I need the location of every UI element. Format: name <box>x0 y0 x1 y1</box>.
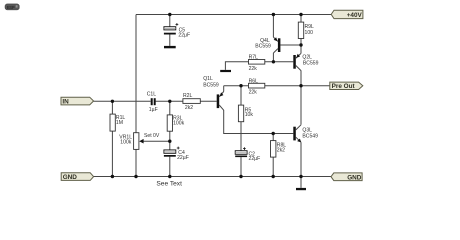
node IN tag <box>61 97 94 105</box>
wire Q4L collector lead <box>272 53 274 62</box>
junction input-R1L <box>111 100 114 103</box>
svg-text:R7L: R7L <box>249 55 259 61</box>
wire R7L right lead to Q2L base <box>265 61 294 63</box>
wire C1L to R2L and R3L node <box>156 100 183 102</box>
junction feedback-R8L-Q3L base <box>272 132 275 135</box>
svg-text:Set 0V: Set 0V <box>144 133 160 139</box>
junction output-Q2L-Q3L collectors <box>299 84 302 87</box>
svg-text:Q1L: Q1L <box>203 76 213 82</box>
wire Q4L emitter lead from rail <box>272 15 274 38</box>
junction gnd-C4 <box>168 175 171 178</box>
wire C4 leads <box>169 141 171 176</box>
junction gnd-R8L <box>272 175 275 178</box>
svg-text:BC549: BC549 <box>302 134 318 140</box>
junction rail-R9L <box>299 13 302 16</box>
svg-text:See Text: See Text <box>156 181 182 188</box>
wire output line R6L to Pre Out <box>265 85 330 87</box>
logo <box>5 4 19 10</box>
wire Q3L collector to output node <box>300 86 302 125</box>
wire R3L leads <box>169 101 171 141</box>
svg-text:GND: GND <box>63 174 78 181</box>
resistor R5 <box>238 105 253 122</box>
svg-text:22k: 22k <box>249 66 258 72</box>
svg-text:100: 100 <box>305 30 314 36</box>
svg-text:IN: IN <box>62 98 69 105</box>
svg-text:BC559: BC559 <box>303 60 319 66</box>
junction R7L-Q4L collector-Q2L base <box>272 60 275 63</box>
svg-text:22µF: 22µF <box>249 156 261 162</box>
junction output-R5 <box>239 84 242 87</box>
svg-text:R2L: R2L <box>183 93 193 99</box>
svg-text:ESP: ESP <box>7 5 15 10</box>
wire R8L leads <box>272 134 274 177</box>
svg-text:+40V: +40V <box>347 12 363 19</box>
transistor Q1L <box>203 76 224 110</box>
svg-text:1M: 1M <box>116 120 123 126</box>
transistor Q3L <box>293 125 318 143</box>
capacitor C5 <box>164 23 190 38</box>
capacitor C1L <box>147 91 158 113</box>
resistor R2L <box>183 93 200 111</box>
transistor Q4L <box>255 37 280 53</box>
wire Q3L emitter to ground <box>300 142 302 188</box>
junction rail-Q4L emitter <box>272 13 275 16</box>
wire Q2L collector to output node <box>300 71 302 86</box>
junction gnd-R1L <box>111 175 114 178</box>
wire R5 top lead <box>240 86 242 105</box>
resistor R7L <box>249 55 265 73</box>
svg-text:R6L: R6L <box>249 79 259 85</box>
svg-text:10k: 10k <box>245 112 254 118</box>
node GND tag left <box>61 173 93 181</box>
resistor R6L <box>249 79 265 96</box>
wire left drop from +40V rail to VR1L <box>135 15 137 133</box>
svg-text:22µF: 22µF <box>178 32 190 38</box>
junction gnd-C2 <box>239 175 242 178</box>
svg-text:22k: 22k <box>249 90 258 96</box>
node GND tag right <box>331 173 362 182</box>
svg-text:BC559: BC559 <box>203 82 219 88</box>
svg-text:22µF: 22µF <box>177 155 189 161</box>
wire VR1L bottom lead <box>135 149 137 176</box>
svg-text:BC559: BC559 <box>255 44 271 50</box>
junction rail-C5 <box>168 13 171 16</box>
svg-text:2k2: 2k2 <box>185 105 193 111</box>
svg-text:100k: 100k <box>173 120 184 126</box>
wire C2 bottom lead <box>240 157 242 176</box>
svg-text:C1L: C1L <box>147 91 157 97</box>
wire R1L leads <box>111 101 113 176</box>
node Pre Out tag <box>330 82 363 90</box>
node +40V tag <box>331 10 363 19</box>
junction wiper-R3L-C4 <box>168 140 171 143</box>
wire bottom ground rail <box>94 176 332 178</box>
ground under C5 <box>164 46 176 48</box>
wire VR1L wiper to R3L/C4 node <box>143 140 170 142</box>
potentiometer VR1L <box>119 133 143 150</box>
resistor R9L <box>298 22 314 38</box>
wire R2L to Q1L base <box>200 100 216 102</box>
svg-text:1µF: 1µF <box>149 107 158 113</box>
resistor R8L <box>271 141 287 158</box>
wire R5 to C2 <box>240 122 242 151</box>
wire R9L leads <box>300 15 302 46</box>
wire Q1L collector feedback to Q3L base <box>224 110 294 134</box>
transistor Q2L <box>293 53 318 70</box>
ground under Q3L emitter <box>296 188 306 190</box>
junction C1L-R2L-R3L <box>168 100 171 103</box>
wire input from IN tag to C1L <box>94 100 151 102</box>
svg-text:100k: 100k <box>120 139 131 145</box>
capacitor C2 <box>235 147 260 162</box>
wire Q4L base to R9L node <box>280 44 301 46</box>
wire +40V top rail <box>136 14 331 16</box>
wire Q2L emitter lead <box>300 45 302 53</box>
resistor R3L <box>167 115 184 131</box>
wire C5 leads <box>169 15 171 46</box>
svg-text:R9L: R9L <box>305 24 315 30</box>
svg-text:Pre Out: Pre Out <box>332 83 356 90</box>
svg-text:2k2: 2k2 <box>277 147 285 153</box>
junction R9L-Q4L base-Q2L emitter <box>299 43 302 46</box>
ground under R7L left lead <box>220 70 231 72</box>
wire Q1L emitter to output line <box>223 86 225 92</box>
wire R7L left lead to local ground <box>225 62 248 70</box>
capacitor C4 <box>164 147 189 161</box>
resistor R1L <box>110 114 125 131</box>
wire output line Q1L emitter to R6L <box>224 85 249 87</box>
svg-text:GND: GND <box>347 175 362 182</box>
junction gnd-VR1L <box>134 175 137 178</box>
junction gnd-Q3L emitter <box>299 175 302 178</box>
